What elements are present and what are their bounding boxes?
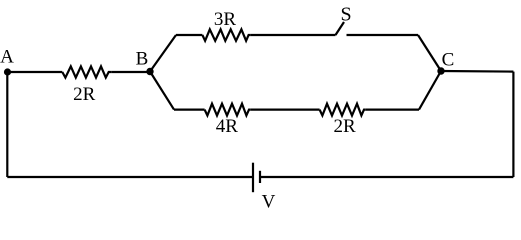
svg-text:4R: 4R bbox=[216, 116, 239, 137]
wire right edge down bbox=[512, 72, 514, 177]
svg-text:S: S bbox=[340, 4, 351, 26]
wire bottom branch to resistor 4R bbox=[174, 108, 205, 110]
wire A to resistor 2R bbox=[8, 71, 63, 73]
wire corner down to node C bbox=[418, 35, 441, 71]
resistor R3 4R bbox=[205, 104, 251, 116]
wire B down to bottom branch bbox=[150, 72, 174, 110]
wire B up to top branch bbox=[150, 35, 176, 72]
svg-text:V: V bbox=[262, 191, 276, 208]
wire C to right edge bbox=[441, 70, 513, 73]
battery V long plate bbox=[252, 163, 254, 193]
wire resistor 2R to corner bbox=[366, 108, 419, 110]
svg-text:2R: 2R bbox=[334, 116, 357, 137]
node C bbox=[437, 67, 444, 74]
resistor R1 2R bbox=[62, 66, 111, 77]
svg-text:C: C bbox=[442, 50, 455, 71]
wire left edge up to node A bbox=[6, 72, 8, 177]
wire corner up to node C bbox=[419, 71, 441, 110]
svg-text:2R: 2R bbox=[73, 84, 96, 105]
battery V short plate bbox=[259, 171, 261, 183]
resistor R2 3R bbox=[202, 29, 250, 40]
wire bottom right to battery bbox=[260, 176, 513, 178]
wire resistor 4R to resistor 2R bbox=[251, 108, 320, 110]
wire resistor 2R to node B bbox=[111, 71, 150, 73]
switch S lever bbox=[336, 22, 345, 35]
wire resistor 3R to switch bbox=[250, 34, 335, 36]
wire switch to corner bbox=[347, 34, 419, 36]
svg-text:3R: 3R bbox=[214, 9, 237, 30]
node A bbox=[4, 68, 11, 75]
wire battery to bottom left bbox=[7, 176, 253, 178]
svg-text:A: A bbox=[0, 47, 14, 68]
resistor R4 2R bbox=[320, 104, 366, 116]
svg-text:B: B bbox=[136, 49, 149, 70]
node B bbox=[146, 68, 153, 75]
wire top branch to resistor 3R bbox=[176, 34, 202, 36]
